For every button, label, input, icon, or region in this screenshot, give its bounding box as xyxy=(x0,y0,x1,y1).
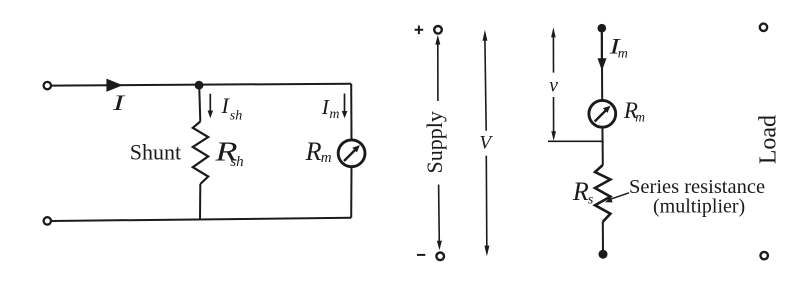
svg-text:sh: sh xyxy=(230,109,242,124)
svg-text:(multiplier): (multiplier) xyxy=(653,196,745,218)
minus sign (supply -) xyxy=(417,254,425,256)
wire: left circuit top horizontal xyxy=(51,84,351,86)
meter R_m (left circuit) ammeter circle xyxy=(338,140,365,167)
terminal supply top circle xyxy=(434,26,442,34)
supply arrow lower (pointing down) xyxy=(438,185,441,244)
terminal bottom-left open circle xyxy=(44,217,51,224)
wire: resistor to bottom dot xyxy=(602,222,604,254)
wire: left circuit bottom horizontal xyxy=(51,218,351,221)
node dot bottom of multiplier branch xyxy=(599,250,608,259)
svg-text:I: I xyxy=(111,90,126,115)
arrow I_m big (down, right circuit) xyxy=(601,33,603,60)
svg-text:m: m xyxy=(329,107,339,122)
arrow V lower segment (pointing down) xyxy=(485,156,488,246)
svg-text:m: m xyxy=(321,150,332,166)
annotation pointer arrow to R_s xyxy=(611,193,630,199)
svg-text:Shunt: Shunt xyxy=(130,140,181,165)
wire: between meter and tick xyxy=(601,127,603,143)
svg-text:s: s xyxy=(588,193,594,208)
wire: tick to resistor xyxy=(602,141,604,165)
wire: right branch lower segment xyxy=(350,167,352,218)
arrow I_m (down, left circuit) xyxy=(344,94,346,112)
svg-text:v: v xyxy=(549,75,558,96)
arrow v upper (pointing up) xyxy=(551,27,556,37)
arrow V upper segment (pointing up) xyxy=(483,30,488,41)
meter needle (left) xyxy=(344,150,355,161)
svg-text:R: R xyxy=(305,137,322,166)
resistor R_s zigzag xyxy=(595,165,610,222)
wire: right branch upper segment xyxy=(350,84,352,140)
arrow v lower (pointing down) xyxy=(553,97,555,132)
resistor R_sh zigzag xyxy=(193,122,208,185)
svg-text:Load: Load xyxy=(755,115,781,164)
svg-text:Series resistance: Series resistance xyxy=(629,176,765,198)
svg-text:Supply: Supply xyxy=(422,111,447,173)
tick line (v measurement reference) xyxy=(548,140,603,142)
svg-text:V: V xyxy=(479,133,493,154)
terminal load bottom circle xyxy=(761,252,768,259)
wire: shunt branch lower segment xyxy=(199,184,201,220)
terminal load top circle xyxy=(760,24,767,31)
node dot top of multiplier branch xyxy=(598,24,607,33)
plus sign (supply +) xyxy=(415,26,424,35)
wire: shunt branch upper segment xyxy=(199,85,200,121)
supply arrow upper (pointing up) xyxy=(435,35,440,45)
arrow I_sh (down) xyxy=(209,94,211,111)
node junction dot at shunt branch xyxy=(195,81,204,90)
current arrow I on top wire xyxy=(106,79,122,92)
meter R_m (right circuit) circle xyxy=(589,100,616,127)
svg-text:R: R xyxy=(572,177,589,206)
svg-text:sh: sh xyxy=(230,154,243,170)
terminal top-left open circle xyxy=(44,82,51,89)
svg-text:m: m xyxy=(618,46,628,61)
wire: multiplier branch top segment xyxy=(601,28,603,100)
meter needle (right) xyxy=(595,111,606,122)
terminal supply bottom circle xyxy=(436,252,444,260)
svg-text:m: m xyxy=(635,110,645,125)
